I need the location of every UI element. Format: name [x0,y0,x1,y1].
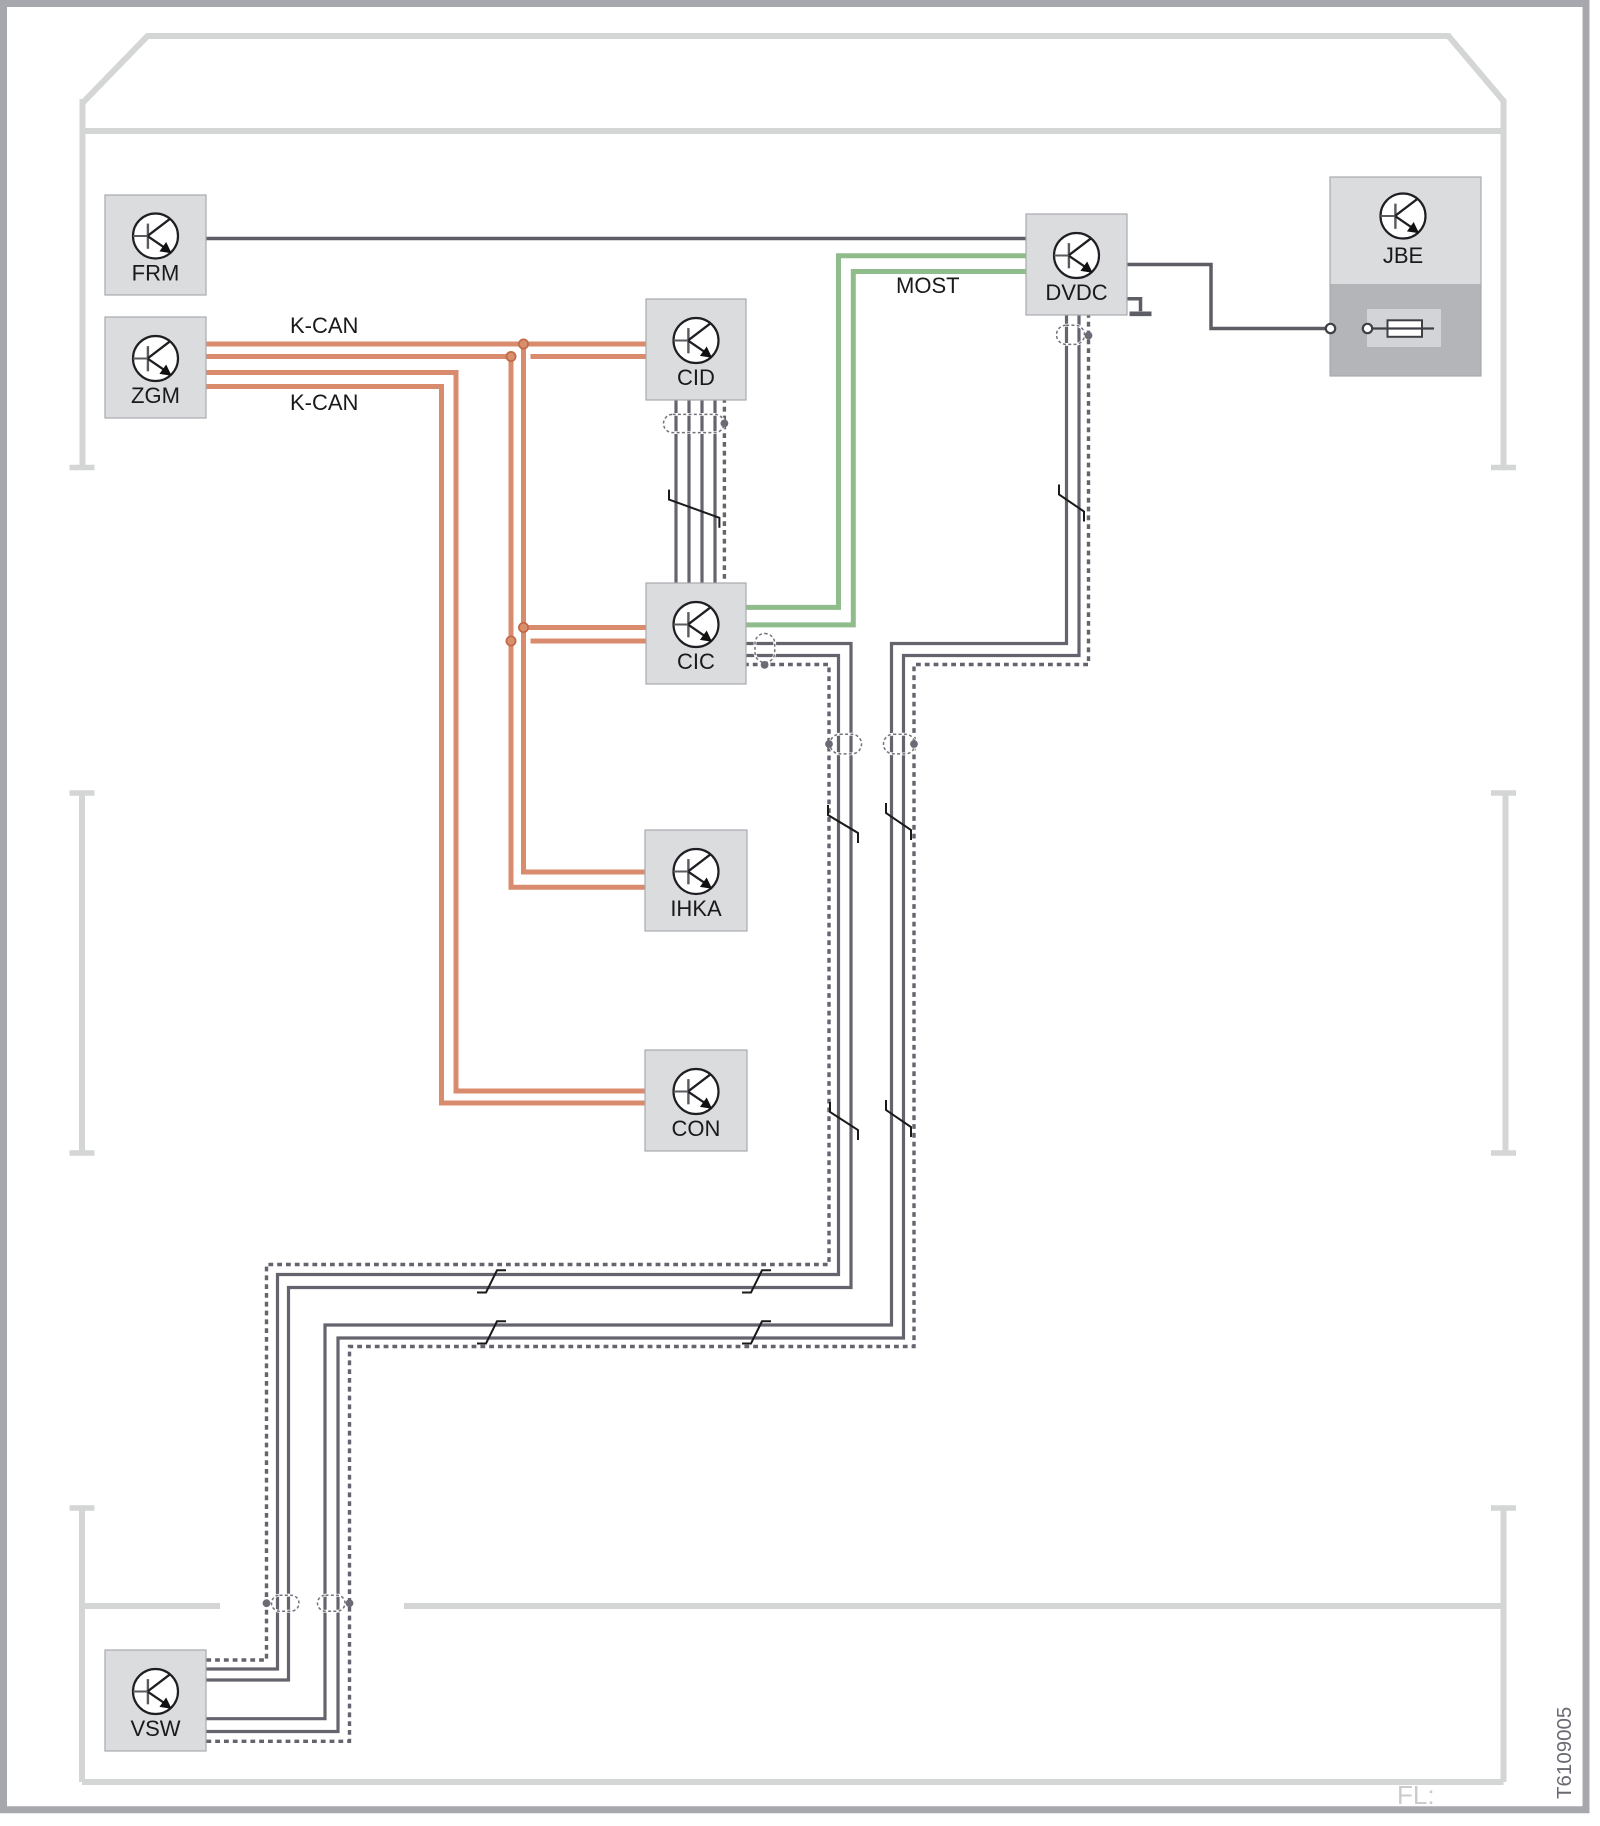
wire K-CAN line 2 (ZGM to CID, orange, gap at crossing) [206,354,516,359]
junction dot K-CAN line2 [506,352,515,361]
shield symbol right of CIC [755,634,775,669]
svg-text:T6109005: T6109005 [1553,1707,1576,1799]
svg-text:ZGM: ZGM [131,383,180,408]
car right A-pillar foot tick [1491,465,1516,471]
slash on S-bend bottom group left [477,1321,506,1343]
control unit ZGM [105,317,206,418]
junction dot CIC top entry [519,623,528,632]
fuse F body [1388,320,1423,337]
shield symbol at VSW left bundle [263,1595,299,1611]
car left A-pillar foot tick [70,465,95,471]
control unit CON [645,1050,747,1151]
car roof outline [83,36,1504,103]
svg-text:K-CAN: K-CAN [290,313,358,338]
junction dot CIC bottom entry [506,636,515,645]
slash on DVDC bundle [1059,485,1084,522]
control unit VSW [105,1650,206,1751]
control unit DVDC [1026,214,1127,315]
connector circle at JBE edge [1326,324,1335,333]
car right A-pillar [1501,99,1507,466]
junction box electronics JBE [1330,177,1481,376]
car right C-pillar tick [1491,1505,1516,1511]
wire MOST green 2 (CIC to DVDC) [744,272,1028,625]
wire DVDC-B shield dashed (DVDC to VSW) [204,313,1089,1741]
car floor line [82,1779,1504,1785]
slash on CID-CIC bundle [669,490,719,528]
car left C-pillar tick [70,1505,95,1511]
control unit IHKA [645,830,747,931]
slash on CIC-A bundle lower [830,1102,858,1140]
shield symbol at VSW right bundle [318,1595,354,1611]
shield symbol on DVDC-B bundle [884,734,918,754]
car right C-pillar [1501,1508,1507,1782]
junction dot K-CAN line1 [519,339,528,348]
svg-text:CID: CID [677,365,715,390]
wire K-CAN line 3 (ZGM to CON, orange) [206,373,648,1092]
svg-text:K-CAN: K-CAN [290,390,358,415]
car right B-pillar bracket [1503,793,1509,1153]
svg-text:FRM: FRM [132,261,180,286]
svg-text:JBE: JBE [1383,243,1423,268]
wire K-CAN branch into CIC top [524,625,649,630]
wire CIC-A shield dashed (CIC to VSW) [204,665,829,1661]
wire bundle CID to CIC (4 solid) [676,398,715,585]
wire shield drain CID to CIC (dashed) [723,398,726,585]
wire K-CAN line 1 (ZGM to CID, orange) [206,342,648,347]
control unit CIC [646,583,746,684]
wire FRM to DVDC (dark gray) [204,237,1028,241]
wire K-CAN line 4 (ZGM to CON, orange) [206,387,648,1104]
control unit CID [646,299,746,400]
shield symbol on CIC-A bundle [825,734,861,754]
wire K-CAN branch v2 (junction to CIC/IHKA, orange) [511,357,648,888]
slash on S-bend top group right [742,1270,771,1292]
slash on S-bend top group left [477,1270,506,1292]
connector circle at fuse holder [1363,324,1372,333]
svg-text:CIC: CIC [677,649,715,674]
wire MOST green 1 (CIC to DVDC) [744,256,1028,608]
wire CIC-A solid 2 (CIC to VSW) [204,656,839,1670]
fuse holder inner box [1367,309,1441,347]
control unit FRM [105,195,206,295]
car parcel shelf line right segment [404,1603,1502,1609]
wire K-CAN branch into CIC bottom (gap at crossing) [511,639,516,644]
slash on DVDC-B bundle upper [886,803,911,840]
slash on DVDC-B bundle lower [886,1100,911,1137]
car left C-pillar [79,1508,85,1782]
svg-text:IHKA: IHKA [670,896,722,921]
shield symbol below DVDC [1057,325,1093,344]
wire DVDC to JBE fuse [1125,265,1326,329]
svg-text:FL:: FL: [1397,1780,1435,1810]
fuse F wire [1372,327,1434,329]
car left A-pillar [80,99,86,466]
svg-text:DVDC: DVDC [1045,280,1107,305]
car parcel shelf line left segment [84,1603,220,1609]
DVDC termination stub [1125,299,1141,312]
car left B-pillar bracket [79,793,85,1153]
svg-text:MOST: MOST [896,273,960,298]
svg-text:CON: CON [672,1116,721,1141]
wire DVDC-B solid 1 (DVDC to VSW) [204,313,1067,1719]
car windshield base line [83,128,1504,134]
wire K-CAN branch v1 (junction to CIC/IHKA, orange) [524,344,649,872]
wire CIC-A solid 1 (CIC to VSW) [204,644,851,1681]
slash on S-bend bottom group right [742,1321,771,1343]
svg-text:VSW: VSW [130,1716,180,1741]
shield symbol below CID [664,414,729,432]
wire DVDC-B solid 2 (DVDC to VSW) [204,313,1079,1732]
slash on CIC-A bundle upper [828,805,858,843]
